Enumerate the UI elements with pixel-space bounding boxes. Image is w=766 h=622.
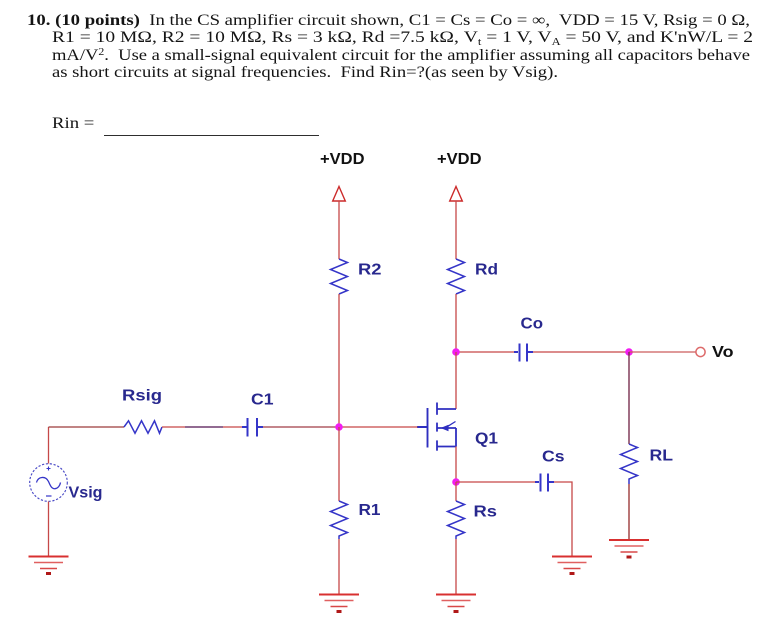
ground (below Rs) [436,595,476,614]
wire +VDD left to R2 [338,201,340,259]
capacitor C1 [242,418,263,437]
power symbol +VDD (left) [333,187,346,202]
ground (below RL) [609,540,649,559]
wire gate node to Q1 gate [339,426,418,428]
svg-text:R1: R1 [359,502,381,519]
svg-text:+VDD: +VDD [437,151,482,168]
wire Vsig to ground [48,502,50,557]
wire output node to terminal Vo [629,351,696,353]
voltage source Vsig [30,464,68,502]
wire Rd to drain node [455,294,457,352]
svg-text:Vo: Vo [712,344,734,361]
resistor RL [621,444,638,484]
power symbol +VDD (right) [450,187,463,202]
wire Q1 source to source node [455,447,457,483]
wire drain node to Co [456,351,515,353]
wire overlap segment (C1 lead) [185,426,223,428]
capacitor Cs [535,474,554,492]
transistor Q1 [417,403,456,451]
wire source node to Cs [456,481,537,483]
wire R1 to ground [338,539,340,595]
wire drain node to Q1 drain [455,352,457,409]
resistor Rs [448,501,465,539]
wire Vsig to left corner [48,427,50,464]
wire left corner to Rsig [49,426,125,428]
wire source node to Rs [455,482,457,501]
wire Co to output node [533,351,629,353]
svg-text:RL: RL [650,448,674,465]
svg-text:Rd: Rd [475,262,498,279]
node output Vo [625,348,633,356]
svg-text:Vsig: Vsig [69,485,103,502]
svg-text:C1: C1 [251,392,274,409]
resistor Rd [448,259,465,294]
capacitor Co [514,344,533,362]
terminal Vo (open circle) [696,347,705,356]
wire +VDD right to Rd [455,201,457,259]
svg-text:Cs: Cs [542,449,565,466]
wire Rs to ground [455,539,457,595]
svg-text:R2: R2 [358,262,382,279]
svg-text:Q1: Q1 [475,431,498,448]
ground (below Cs) [552,557,592,576]
wire Rsig to C1 [162,426,185,428]
node drain [452,348,460,356]
wire to C1 [223,426,243,428]
wire gate node to R1 [338,427,340,501]
wire R2 to gate node [338,294,340,427]
svg-text:Rsig: Rsig [122,388,162,405]
svg-text:+VDD: +VDD [320,151,365,168]
wire RL to ground [628,484,630,540]
resistor R2 [331,259,348,294]
svg-text:Rs: Rs [474,504,498,521]
wire Cs to ground corner [554,482,572,557]
resistor R1 [331,501,348,539]
node gate [335,423,343,431]
wire output node to RL [628,352,630,444]
svg-text:Co: Co [521,316,544,333]
resistor Rsig [124,421,162,433]
ground (below Vsig) [29,557,69,576]
ground (below R1) [319,595,359,614]
node source [452,478,460,486]
wire C1 to gate node [263,426,339,428]
